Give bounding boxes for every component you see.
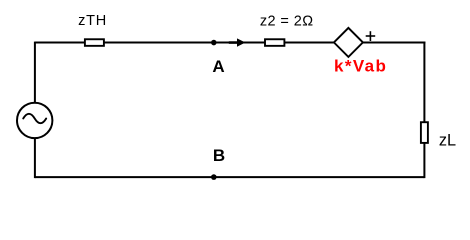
wire right vertical upper segment: [423, 42, 425, 123]
node A: [211, 40, 225, 76]
resistor z2: [260, 14, 314, 46]
wire right vertical lower segment: [423, 143, 425, 179]
node B: [211, 146, 225, 180]
resistor zL: [421, 122, 456, 149]
svg-text:zL: zL: [439, 132, 456, 150]
wire dependent source to top-right corner: [363, 42, 426, 44]
current arrow: [229, 38, 246, 46]
wire left vertical upper segment: [34, 42, 36, 103]
resistor zTH: [78, 13, 107, 46]
svg-text:zTH: zTH: [78, 13, 107, 29]
svg-text:z2 = 2Ω: z2 = 2Ω: [260, 14, 314, 30]
wire bottom: [35, 176, 425, 178]
polarity plus sign: [366, 31, 376, 41]
AC source V1: [17, 103, 52, 138]
dependent source U1 (diamond): [334, 28, 363, 57]
wire zTH to resistor z2: [104, 42, 266, 44]
wire top-left segment: [35, 42, 86, 44]
svg-text:k*Vab: k*Vab: [334, 57, 387, 76]
wire left vertical lower segment: [34, 138, 36, 178]
wire z2 to dependent source: [284, 42, 334, 44]
svg-text:A: A: [212, 57, 224, 76]
svg-text:B: B: [213, 146, 225, 165]
